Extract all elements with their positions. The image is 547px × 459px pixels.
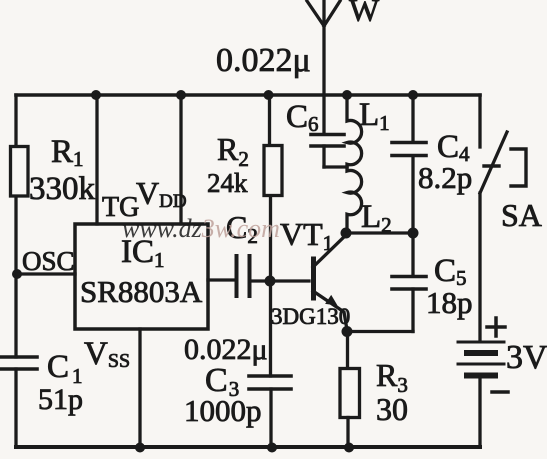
label C2 [226, 209, 258, 248]
node R3 bottom junction [344, 443, 354, 453]
wire C2 to base [251, 279, 309, 282]
wire VDD pin [179, 95, 182, 224]
label 3V [506, 339, 547, 376]
wire bottom bus [16, 445, 480, 449]
capacitor C1 [1, 357, 37, 369]
capacitor C2 [237, 256, 250, 296]
label SA [501, 197, 542, 233]
svg-text:L1: L1 [359, 97, 390, 135]
wire left branch [14, 95, 17, 447]
switch SA [480, 132, 526, 193]
svg-text:R1: R1 [51, 134, 84, 171]
label 30 [376, 391, 408, 427]
wire IC to C2 [208, 278, 234, 281]
label L2 [361, 199, 392, 237]
label 51p [38, 383, 83, 416]
wire battery to bottom [478, 377, 481, 447]
node L1 top junction [342, 90, 352, 100]
inductor L1 [347, 95, 362, 167]
label 1000p [184, 393, 262, 428]
node VDD junction [176, 90, 186, 100]
resistor R1 [11, 147, 29, 197]
wire switch to battery [478, 193, 481, 341]
watermark [122, 214, 280, 243]
label IC1 [121, 234, 165, 272]
antenna W [307, 0, 340, 134]
svg-text:18p: 18p [426, 285, 473, 320]
wire C4 branch [411, 95, 414, 233]
node C3 bottom junction [267, 443, 277, 453]
svg-text:8.2p: 8.2p [418, 160, 472, 195]
svg-text:VDD: VDD [136, 175, 187, 212]
label C4 [437, 129, 470, 166]
node OSC junction [12, 269, 22, 279]
battery plus sign [487, 318, 505, 336]
label L1 [359, 97, 390, 135]
capacitor C6 [311, 135, 344, 168]
wire emitter bus [347, 330, 413, 333]
wire C5 branch [411, 233, 414, 332]
op-amp U1 IC1 box [75, 224, 208, 329]
svg-text:SR8803A: SR8803A [80, 274, 203, 309]
wire C6 tap to coil [324, 165, 347, 168]
svg-text:0.022μ: 0.022μ [216, 42, 311, 79]
label 8.2p [418, 160, 472, 195]
wire R3 to bottom [346, 418, 349, 448]
svg-text:OSC: OSC [22, 246, 75, 276]
label 0.022u C2 value [184, 333, 268, 366]
label R1 [51, 134, 84, 171]
node R2 top junction [264, 90, 274, 100]
label VT1 [280, 216, 333, 255]
node C4 top junction [408, 90, 418, 100]
label R2 [217, 131, 249, 171]
node emitter junction [342, 326, 353, 337]
label C3 [205, 362, 239, 401]
label TG [102, 192, 139, 223]
label SR8803A [80, 274, 203, 309]
svg-text:C6: C6 [286, 99, 319, 136]
wire R2 branch [270, 95, 272, 447]
node TG junction [91, 90, 101, 100]
svg-text:30: 30 [376, 391, 408, 427]
emitter arrow [325, 295, 337, 306]
svg-text:VT1: VT1 [280, 216, 333, 255]
resistor R3 [340, 369, 360, 418]
node VSS bottom junction [135, 443, 145, 453]
capacitor C5 [392, 277, 426, 290]
svg-text:www.dz3w.com: www.dz3w.com [122, 214, 280, 243]
label 24k [207, 168, 248, 198]
svg-text:1000p: 1000p [184, 393, 262, 428]
wire right branch [478, 95, 481, 147]
label VSS [84, 336, 130, 372]
node C5 top junction [408, 228, 419, 239]
resistor R2 [264, 146, 282, 196]
svg-text:SA: SA [501, 197, 542, 233]
wire OSC pin [17, 272, 75, 275]
battery minus sign [492, 390, 508, 394]
wire TG pin [95, 95, 98, 224]
svg-text:R2: R2 [217, 131, 249, 171]
label 330k [29, 171, 96, 207]
label W [349, 0, 380, 28]
svg-text:VSS: VSS [84, 336, 130, 372]
capacitor C4 [392, 143, 426, 156]
wire emitter to R3 [346, 332, 349, 370]
label C5 [434, 253, 467, 290]
wire VSS pin [138, 329, 141, 447]
svg-text:330k: 330k [29, 171, 96, 207]
svg-text:24k: 24k [207, 168, 248, 198]
battery B1 3V [458, 342, 504, 376]
svg-text:3V: 3V [506, 339, 547, 376]
label 0.022u C6 value [216, 42, 311, 79]
label OSC [22, 246, 75, 276]
node collector junction [341, 228, 352, 239]
wire top bus [16, 93, 480, 97]
label C6 [286, 99, 319, 136]
svg-text:W: W [349, 0, 380, 28]
svg-text:51p: 51p [38, 383, 83, 416]
inductor L2 [347, 167, 362, 233]
wire collector bus [347, 231, 413, 234]
transistor Q1 VT1 [313, 236, 347, 330]
capacitor C3 [249, 376, 291, 389]
label VDD [136, 175, 187, 212]
label C1 [47, 349, 83, 388]
label 18p [426, 285, 473, 320]
label 3DG130 [271, 304, 350, 329]
svg-text:3DG130: 3DG130 [271, 304, 350, 329]
node base junction [265, 276, 276, 287]
label R3 [376, 357, 408, 397]
svg-text:L2: L2 [361, 199, 392, 237]
